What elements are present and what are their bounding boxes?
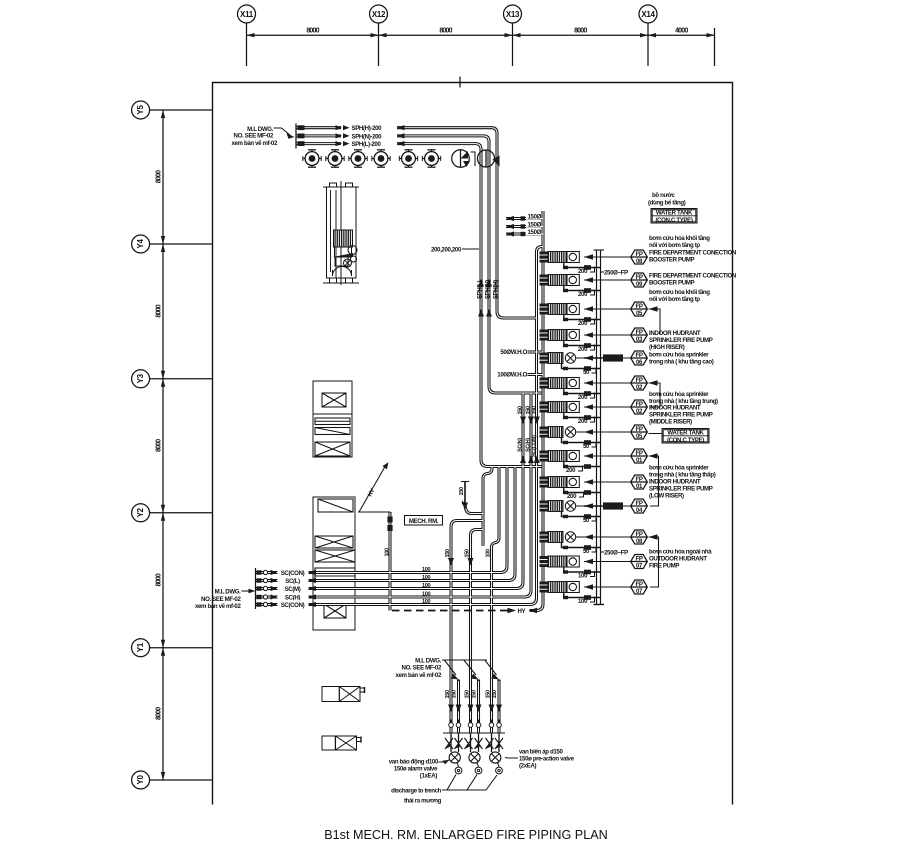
svg-text:100: 100 (578, 573, 588, 580)
svg-text:H: H (462, 501, 466, 507)
svg-text:(dùng bể tầng): (dùng bể tầng) (648, 200, 686, 207)
svg-text:nối với bơm tầng tp: nối với bơm tầng tp (649, 242, 700, 249)
svg-text:SC(N): SC(N) (518, 438, 524, 452)
svg-text:NO. SEE MF-02: NO. SEE MF-02 (234, 133, 274, 140)
svg-text:SC(CON): SC(CON) (531, 435, 537, 457)
svg-text:8000: 8000 (155, 439, 162, 452)
svg-text:FP: FP (635, 476, 642, 483)
svg-text:FP: FP (635, 500, 642, 507)
svg-text:X12: X12 (372, 10, 386, 19)
svg-text:150: 150 (531, 406, 537, 415)
svg-text:Y4: Y4 (136, 239, 145, 249)
svg-text:van biến áp d150: van biến áp d150 (519, 749, 563, 756)
svg-text:SPH(N)-200: SPH(N)-200 (352, 133, 383, 140)
svg-text:FP: FP (635, 303, 642, 310)
svg-text:FIRE PUMP: FIRE PUMP (649, 563, 679, 570)
svg-text:02: 02 (636, 408, 643, 415)
svg-text:van báo động d100: van báo động d100 (389, 759, 439, 766)
svg-text:WATER TANK: WATER TANK (656, 210, 693, 217)
svg-text:xem bản vẽ mf-02: xem bản vẽ mf-02 (395, 672, 442, 679)
svg-text:200: 200 (578, 346, 588, 353)
svg-text:(2xEA): (2xEA) (519, 763, 537, 770)
svg-text:OUTDOOR HUDRANT: OUTDOOR HUDRANT (649, 556, 707, 563)
svg-text:02: 02 (636, 384, 643, 391)
svg-text:(CON.C TYPE): (CON.C TYPE) (667, 437, 704, 444)
svg-text:150: 150 (472, 690, 478, 699)
svg-text:01: 01 (636, 483, 643, 490)
svg-text:50: 50 (583, 548, 590, 555)
svg-text:FP: FP (635, 555, 642, 562)
svg-text:150ø alarm valve: 150ø alarm valve (394, 766, 438, 773)
svg-text:250Ø−FP: 250Ø−FP (604, 550, 628, 557)
svg-text:trong nhà ( khu tầng cao): trong nhà ( khu tầng cao) (649, 359, 714, 366)
svg-text:WATER TANK: WATER TANK (667, 430, 704, 437)
svg-text:M.L DWG.: M.L DWG. (215, 589, 242, 596)
svg-text:8000: 8000 (155, 170, 162, 183)
svg-text:bơm cứu hỏa sprinkler: bơm cứu hỏa sprinkler (649, 352, 709, 359)
svg-text:Y1: Y1 (136, 642, 145, 652)
svg-text:FP: FP (635, 329, 642, 336)
svg-text:150: 150 (518, 406, 524, 415)
svg-text:Y0: Y0 (136, 775, 145, 785)
svg-text:8000: 8000 (155, 304, 162, 317)
svg-text:200: 200 (567, 493, 577, 500)
svg-text:SC(CON): SC(CON) (281, 570, 305, 577)
svg-text:100: 100 (486, 549, 492, 558)
svg-text:(1xEA): (1xEA) (420, 773, 438, 780)
svg-text:200: 200 (578, 268, 588, 275)
svg-text:150: 150 (465, 549, 471, 558)
svg-text:03: 03 (636, 336, 643, 343)
svg-text:04: 04 (636, 507, 643, 514)
svg-text:05: 05 (636, 433, 643, 440)
svg-text:NO. SEE MF-02: NO. SEE MF-02 (402, 665, 442, 672)
svg-text:xem bản vẽ mf-02: xem bản vẽ mf-02 (195, 603, 242, 610)
svg-text:(MIDDLE RISER): (MIDDLE RISER) (649, 419, 692, 426)
svg-text:SPRINKLER FIRE PUMP: SPRINKLER FIRE PUMP (649, 486, 713, 493)
svg-text:SPRINKLER FIRE PUMP: SPRINKLER FIRE PUMP (649, 412, 713, 419)
svg-text:50: 50 (583, 443, 590, 450)
svg-text:50: 50 (583, 517, 590, 524)
svg-text:bơm cứu hỏa sprinkler: bơm cứu hỏa sprinkler (649, 465, 709, 472)
svg-text:150Ø: 150Ø (527, 222, 541, 229)
svg-text:FP: FP (635, 352, 642, 359)
svg-text:NO. SEE MF-02: NO. SEE MF-02 (201, 596, 241, 603)
svg-text:thải ra mương: thải ra mương (404, 798, 442, 805)
svg-text:200,200,200: 200,200,200 (431, 247, 462, 254)
svg-text:SPH(L)-200: SPH(L)-200 (352, 141, 382, 148)
svg-text:150: 150 (485, 690, 491, 699)
svg-text:150ø pre-action valve: 150ø pre-action valve (519, 756, 575, 763)
svg-text:Y5: Y5 (136, 105, 145, 115)
svg-text:150: 150 (445, 549, 451, 558)
svg-text:INDOOR HUDRANT: INDOOR HUDRANT (649, 479, 701, 486)
svg-text:100: 100 (422, 583, 431, 589)
svg-text:(CON.C TYPE): (CON.C TYPE) (655, 217, 692, 224)
svg-text:100ØW.H.O: 100ØW.H.O (497, 372, 527, 379)
svg-text:FP: FP (635, 450, 642, 457)
svg-text:FIRE DEPARTMENT CONECTION: FIRE DEPARTMENT CONECTION (649, 273, 736, 280)
svg-text:100: 100 (422, 591, 431, 597)
svg-text:09: 09 (636, 281, 643, 288)
svg-text:BOOSTER PUMP: BOOSTER PUMP (649, 280, 695, 287)
svg-text:150: 150 (452, 690, 458, 699)
svg-text:100: 100 (578, 598, 588, 605)
svg-text:(LOW RISER): (LOW RISER) (649, 493, 684, 500)
svg-text:08: 08 (636, 538, 643, 545)
svg-text:FP: FP (635, 251, 642, 258)
svg-text:bơm cứu hỏa khối tầng: bơm cứu hỏa khối tầng (649, 235, 710, 242)
svg-text:FIRE DEPARTMENT CONECTION: FIRE DEPARTMENT CONECTION (649, 250, 736, 257)
svg-text:bơm cứu hỏa khối tầng: bơm cứu hỏa khối tầng (649, 289, 710, 296)
svg-text:xem bản vẽ mf-02: xem bản vẽ mf-02 (231, 140, 278, 147)
svg-text:FP: FP (635, 426, 642, 433)
svg-text:INDOOR HUDRANT: INDOOR HUDRANT (649, 330, 701, 337)
svg-text:07: 07 (636, 563, 643, 570)
svg-text:bồ nước: bồ nước (652, 192, 676, 199)
svg-text:150: 150 (464, 690, 470, 699)
svg-text:8000: 8000 (306, 28, 319, 35)
svg-text:bơm cứu hỏa ngoài nhà: bơm cứu hỏa ngoài nhà (649, 549, 712, 556)
svg-text:100: 100 (384, 548, 390, 557)
svg-text:X14: X14 (641, 10, 655, 19)
svg-text:SC(M): SC(M) (285, 586, 301, 593)
svg-text:M.L DWG.: M.L DWG. (415, 658, 442, 665)
svg-text:SPRINKLER FIRE PUMP: SPRINKLER FIRE PUMP (649, 337, 713, 344)
svg-text:X13: X13 (506, 10, 520, 19)
svg-text:SPH(H): SPH(H) (492, 280, 499, 299)
svg-text:FP: FP (635, 401, 642, 408)
svg-text:FP: FP (635, 377, 642, 384)
svg-text:200: 200 (578, 394, 588, 401)
svg-text:8000: 8000 (439, 28, 452, 35)
svg-text:50: 50 (583, 369, 590, 376)
svg-text:100: 100 (422, 599, 431, 605)
svg-text:MECH. RM.: MECH. RM. (409, 518, 439, 525)
svg-text:SC(L): SC(L) (285, 578, 300, 585)
svg-text:250Ø−FP: 250Ø−FP (604, 270, 628, 277)
svg-text:Y2: Y2 (136, 507, 145, 517)
svg-text:(HIGH RISER): (HIGH RISER) (649, 344, 685, 351)
svg-text:8000: 8000 (155, 573, 162, 586)
svg-text:nối với bơm tầng tp: nối với bơm tầng tp (649, 296, 700, 303)
svg-text:SPH(N): SPH(N) (484, 280, 491, 299)
svg-text:50ØW.H.O: 50ØW.H.O (500, 349, 527, 356)
svg-text:150: 150 (492, 690, 498, 699)
svg-text:FP: FP (635, 581, 642, 588)
svg-text:HY: HY (518, 608, 526, 615)
svg-text:FP: FP (635, 531, 642, 538)
svg-text:01: 01 (636, 457, 643, 464)
svg-text:100: 100 (422, 567, 431, 573)
svg-text:trong nhà ( khu tầng thấp): trong nhà ( khu tầng thấp) (649, 472, 716, 479)
svg-text:150Ø: 150Ø (527, 229, 541, 236)
svg-text:05: 05 (636, 310, 643, 317)
svg-text:08: 08 (636, 258, 643, 265)
svg-text:200: 200 (566, 467, 576, 474)
svg-text:discharge to trench: discharge to trench (391, 788, 442, 795)
svg-text:150Ø: 150Ø (527, 214, 541, 221)
svg-text:200: 200 (578, 291, 588, 298)
svg-text:X11: X11 (240, 10, 254, 19)
svg-text:INDOOR HUDRANT: INDOOR HUDRANT (649, 405, 701, 412)
svg-text:150: 150 (459, 487, 465, 496)
svg-text:BOOSTER PUMP: BOOSTER PUMP (649, 257, 695, 264)
svg-text:8000: 8000 (155, 707, 162, 720)
svg-text:FP: FP (635, 274, 642, 281)
svg-text:150: 150 (445, 690, 451, 699)
svg-text:SC(CON): SC(CON) (281, 602, 305, 609)
svg-text:Y3: Y3 (136, 373, 145, 383)
svg-text:B1st MECH. RM. ENLARGED FIRE P: B1st MECH. RM. ENLARGED FIRE PIPING PLAN (324, 828, 607, 842)
svg-text:4000: 4000 (675, 28, 688, 35)
svg-text:100: 100 (422, 575, 431, 581)
svg-text:200: 200 (578, 320, 588, 327)
svg-text:SPH(H)-200: SPH(H)-200 (352, 125, 383, 132)
svg-text:bơm cứu hỏa sprinkler: bơm cứu hỏa sprinkler (649, 391, 709, 398)
svg-text:07: 07 (636, 588, 643, 595)
svg-text:SPH(L): SPH(L) (476, 280, 483, 299)
svg-text:200: 200 (578, 418, 588, 425)
svg-text:06: 06 (636, 359, 643, 366)
svg-text:8000: 8000 (574, 28, 587, 35)
svg-text:HY: HY (367, 488, 377, 498)
